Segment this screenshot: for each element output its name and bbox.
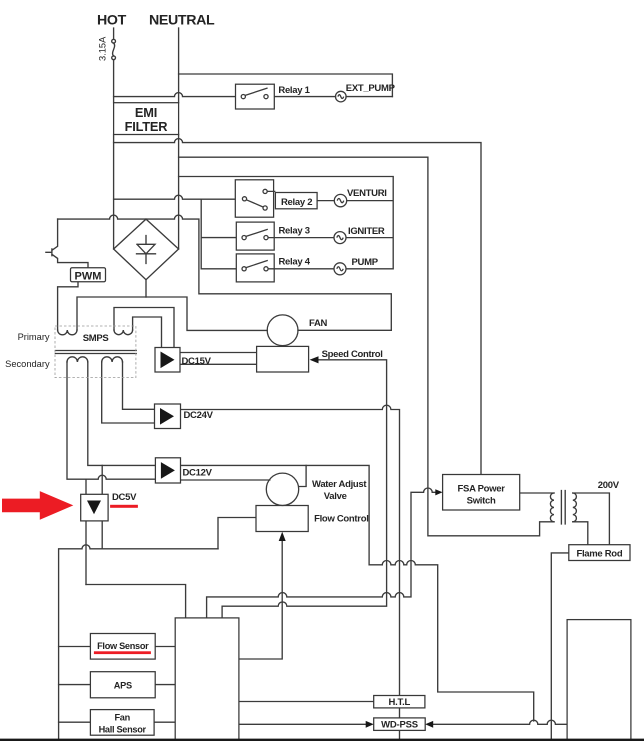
svg-text:EMI: EMI — [135, 105, 157, 120]
svg-text:Secondary: Secondary — [5, 359, 50, 369]
svg-text:H.T.L: H.T.L — [388, 697, 410, 708]
svg-text:FILTER: FILTER — [125, 119, 168, 134]
svg-text:EXT_PUMP: EXT_PUMP — [346, 83, 396, 94]
svg-text:Relay 3: Relay 3 — [279, 226, 310, 237]
svg-text:WD-PSS: WD-PSS — [381, 720, 418, 731]
svg-text:Valve: Valve — [324, 491, 347, 502]
svg-text:NEUTRAL: NEUTRAL — [149, 13, 215, 29]
svg-text:Water Adjust: Water Adjust — [312, 479, 367, 490]
svg-text:DC15V: DC15V — [182, 356, 212, 367]
svg-text:Relay 2: Relay 2 — [281, 197, 312, 208]
svg-text:HOT: HOT — [97, 13, 127, 29]
svg-text:SMPS: SMPS — [83, 333, 109, 344]
svg-text:Flow Sensor: Flow Sensor — [97, 641, 149, 651]
svg-text:FAN: FAN — [309, 318, 328, 329]
svg-text:Switch: Switch — [467, 496, 496, 507]
svg-text:APS: APS — [114, 681, 132, 691]
svg-text:VENTURI: VENTURI — [347, 188, 387, 199]
svg-text:200V: 200V — [598, 480, 620, 491]
svg-text:Fan: Fan — [114, 713, 130, 723]
svg-text:Hall Sensor: Hall Sensor — [99, 725, 147, 735]
svg-text:PWM: PWM — [75, 271, 102, 283]
svg-text:Speed Control: Speed Control — [322, 349, 383, 360]
svg-text:IGNITER: IGNITER — [348, 226, 385, 237]
svg-text:DC12V: DC12V — [183, 468, 213, 479]
svg-text:Flow Control: Flow Control — [314, 514, 368, 525]
svg-text:Flame Rod: Flame Rod — [576, 549, 622, 560]
svg-text:FSA Power: FSA Power — [458, 484, 506, 495]
svg-text:DC24V: DC24V — [184, 410, 214, 421]
svg-text:DC5V: DC5V — [112, 492, 137, 503]
svg-text:Primary: Primary — [18, 332, 50, 342]
svg-text:Relay 1: Relay 1 — [278, 85, 310, 96]
svg-text:PUMP: PUMP — [352, 257, 379, 268]
svg-text:Relay 4: Relay 4 — [279, 257, 311, 268]
svg-text:3.15A: 3.15A — [98, 36, 108, 61]
